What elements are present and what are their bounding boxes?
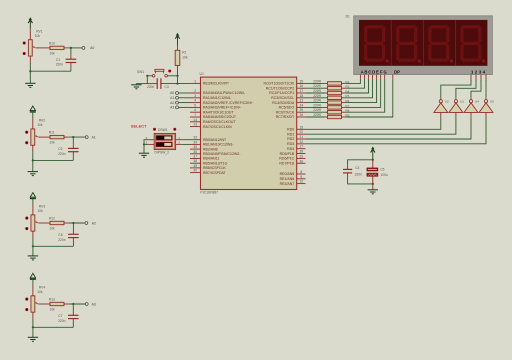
svg-text:C6: C6 xyxy=(58,233,62,237)
svg-text:RD6/P1C: RD6/P1C xyxy=(279,157,294,161)
svg-text:30: 30 xyxy=(300,159,304,163)
svg-text:RE0/AN5: RE0/AN5 xyxy=(280,172,295,176)
pin 30 RD7/P1D (right) xyxy=(297,162,306,164)
svg-text:RD1: RD1 xyxy=(287,132,294,136)
ground (pot 1) xyxy=(25,82,35,84)
svg-text:220R: 220R xyxy=(313,79,321,83)
ground (pot 3) xyxy=(28,255,38,257)
svg-text:RC1/T1OSI/CCP2: RC1/T1OSI/CCP2 xyxy=(266,86,294,90)
svg-text:220n: 220n xyxy=(56,63,64,67)
wire power to RV4 top xyxy=(32,279,34,285)
svg-text:19: 19 xyxy=(300,125,304,129)
svg-text:26: 26 xyxy=(300,113,304,117)
resistor R12 10k xyxy=(50,221,64,224)
pin 34 RB1/AN10/C12IN3- (left) xyxy=(190,143,201,145)
wire pot 3 bottom lead xyxy=(32,238,34,246)
wire R2 to display segment pin xyxy=(346,79,361,84)
svg-text:A1: A1 xyxy=(170,96,174,100)
svg-text:10k: 10k xyxy=(182,55,188,59)
potentiometer RV4 10k xyxy=(31,296,35,312)
power symbol VCC (pot 4) xyxy=(30,273,35,278)
node junction pot 4 bottom xyxy=(32,326,34,328)
wire power to RV3 top xyxy=(32,199,34,205)
terminal A3 (output flag) xyxy=(85,303,88,306)
pin 26 RC7/RX/DT (right) xyxy=(297,116,306,118)
svg-text:RA2/AN2/VREF-/CVREF/C2IN+: RA2/AN2/VREF-/CVREF/C2IN+ xyxy=(203,101,253,105)
svg-text:RB5/AN13/T1G: RB5/AN13/T1G xyxy=(203,161,228,165)
display digit 1 segments xyxy=(366,25,383,28)
node junction at C2 top xyxy=(72,136,74,138)
svg-text:25: 25 xyxy=(300,108,304,112)
terminal A0 (output flag) xyxy=(82,46,85,49)
wire RC0 to R2 xyxy=(306,82,326,84)
terminal A2 (input flag at MCU) xyxy=(176,101,179,104)
svg-text:RC3/SCK/SCL: RC3/SCK/SCL xyxy=(271,96,294,100)
svg-text:U5: U5 xyxy=(490,100,494,104)
wire A1 to MCU xyxy=(179,97,190,99)
svg-text:8: 8 xyxy=(300,170,302,174)
svg-text:RA1/AN1/C12IN1-: RA1/AN1/C12IN1- xyxy=(203,96,232,100)
svg-text:40: 40 xyxy=(193,169,197,173)
svg-text:9: 9 xyxy=(300,175,302,179)
wire wiper to R10 xyxy=(36,47,50,49)
svg-text:DIPSW_2: DIPSW_2 xyxy=(155,151,170,155)
wire DSW1 left pins to ground xyxy=(144,140,148,154)
svg-text:RB7/ICSPDAT: RB7/ICSPDAT xyxy=(203,171,227,175)
pin 38 RB5/AN13/T1G (left) xyxy=(190,162,201,164)
display D1 outer frame xyxy=(354,16,493,75)
node junction SW1 left xyxy=(146,75,148,77)
svg-text:20: 20 xyxy=(300,130,304,134)
pin 35 RB2/AN8 (left) xyxy=(190,148,201,150)
wire R5 to display segment pin xyxy=(346,79,373,98)
svg-text:15: 15 xyxy=(300,79,304,83)
svg-text:220R: 220R xyxy=(313,94,321,98)
resistor R7 220R xyxy=(325,106,327,108)
pin 40 RB7/ICSPDAT (left) xyxy=(190,172,201,174)
resistor R5 220R xyxy=(325,97,327,99)
capacitor C1 220n xyxy=(66,58,77,60)
pin 18 RC3/SCK/SCL (right) xyxy=(297,97,306,99)
red state dots of RV1 xyxy=(23,41,26,44)
wire display digit 3 to inverter U4 output xyxy=(471,80,481,98)
svg-text:A3: A3 xyxy=(170,106,174,110)
pin 3 stub (DSW1) xyxy=(148,143,154,145)
wire RC2 to R4 xyxy=(306,92,326,94)
power symbol VCC (pot 2) xyxy=(30,106,35,111)
svg-text:RA7/OSC1/CLKIN: RA7/OSC1/CLKIN xyxy=(203,125,232,129)
pin 8 RE0/AN5 (right) xyxy=(297,173,306,175)
wire power to R1 xyxy=(177,36,179,46)
display segment pin F stub xyxy=(380,75,382,79)
svg-text:A0: A0 xyxy=(90,46,94,50)
power symbol VCC (pot 1) xyxy=(29,17,32,20)
pin 15 RC0/T1OSO/T1CKI (right) xyxy=(297,82,306,84)
svg-text:27: 27 xyxy=(300,145,304,149)
svg-text:C2: C2 xyxy=(58,147,62,151)
resistor R11 10k xyxy=(50,135,64,138)
svg-text:RC4/SDI/SDA: RC4/SDI/SDA xyxy=(272,101,295,105)
svg-text:RD4: RD4 xyxy=(287,147,294,151)
pin 14 RA6/OSC2/CLKOUT (left) xyxy=(190,121,201,123)
wire R6 to display segment pin xyxy=(346,79,377,103)
wire C2 bottom to pot bottom xyxy=(72,152,74,157)
svg-text:C5: C5 xyxy=(380,168,384,172)
svg-text:14: 14 xyxy=(193,118,197,122)
wire wiper to R11 xyxy=(38,136,50,138)
svg-text:G: G xyxy=(383,70,386,75)
terminal A0 (input flag at MCU) xyxy=(176,92,179,95)
wire to ground (pot 3) xyxy=(32,246,34,256)
wire junction down to C7 xyxy=(72,304,74,311)
svg-text:C3: C3 xyxy=(165,85,169,89)
node junction at C1 top xyxy=(70,47,72,49)
pin 13 RA7/OSC1/CLKIN (left) xyxy=(190,126,201,128)
power symbol VCC (R1) xyxy=(176,33,179,36)
pin 2 RA0/AN0/ULPWU/C12IN0- (left) xyxy=(190,92,201,94)
wire A2 to MCU xyxy=(179,102,190,104)
red state dots of RV2 xyxy=(25,131,28,134)
svg-text:D1: D1 xyxy=(346,14,350,18)
display digit pin 4 stub xyxy=(485,75,487,82)
svg-text:U1: U1 xyxy=(200,72,205,76)
display segment pin B stub xyxy=(363,75,365,79)
svg-text:3: 3 xyxy=(194,94,196,98)
resistor R9 220R xyxy=(325,116,327,118)
svg-text:21: 21 xyxy=(300,135,304,139)
resistor R3 220R xyxy=(325,87,327,89)
pin 21 RD2 (right) xyxy=(297,138,306,140)
svg-text:35: 35 xyxy=(193,145,197,149)
svg-text:SW1: SW1 xyxy=(137,70,144,74)
svg-text:R10: R10 xyxy=(49,42,55,46)
wire R9 to display segment pin xyxy=(346,79,393,117)
red state dots of RV4 xyxy=(25,298,28,301)
inverter U5 xyxy=(485,98,487,100)
wire SW1 left to node xyxy=(147,75,152,77)
display digit pin 2 stub xyxy=(475,75,477,82)
power symbol VCC (C4/C5) xyxy=(371,146,374,149)
svg-text:17: 17 xyxy=(300,89,304,93)
wire to C4 xyxy=(348,160,373,166)
pin 37 RB4/AN11 (left) xyxy=(190,158,201,160)
pin 7 RA5/AN4/SS/C2OUT (left) xyxy=(190,116,201,118)
wire A0 to MCU xyxy=(179,92,190,94)
svg-text:RC7/RX/DT: RC7/RX/DT xyxy=(276,115,295,119)
svg-text:10k: 10k xyxy=(49,227,55,231)
red actuate dots DSW1 xyxy=(153,128,156,131)
wire R8 to display segment pin xyxy=(346,79,385,113)
display segment pin A stub xyxy=(359,75,361,79)
svg-text:U3: U3 xyxy=(460,100,464,104)
capacitor C2 220n xyxy=(68,147,79,149)
svg-text:37: 37 xyxy=(193,155,197,159)
svg-text:DSW1: DSW1 xyxy=(158,128,168,132)
svg-text:RD2: RD2 xyxy=(287,137,294,141)
ground (pot 2) xyxy=(28,171,38,173)
svg-text:23: 23 xyxy=(300,99,304,103)
display segment pin G stub xyxy=(384,75,386,79)
svg-text:10k: 10k xyxy=(37,290,43,294)
pin 4 RA2/AN2/VREF-/CVREF/C2IN+ (left) xyxy=(190,102,201,104)
capacitor C6 220n xyxy=(68,233,79,235)
wire R1 bottom xyxy=(177,66,179,84)
svg-text:RC5/SDO: RC5/SDO xyxy=(279,106,295,110)
svg-text:4: 4 xyxy=(194,99,196,103)
svg-text:RV4: RV4 xyxy=(39,286,46,290)
wire R11 to terminal A1 xyxy=(69,136,85,138)
display D1 inner area xyxy=(359,20,487,66)
svg-text:RC6/TX/CK: RC6/TX/CK xyxy=(276,110,295,114)
svg-text:A0: A0 xyxy=(170,91,174,95)
display digit pin 3 stub xyxy=(480,75,482,82)
svg-text:RB2/AN8: RB2/AN8 xyxy=(203,147,218,151)
wire wiper to R13 xyxy=(38,303,50,305)
svg-text:RD7/P1D: RD7/P1D xyxy=(279,161,294,165)
wire to ground (pot 2) xyxy=(32,160,34,171)
wire SW1 right to R1 bottom xyxy=(167,75,177,77)
dip switch slot 2 xyxy=(156,142,172,147)
resistor R1 10k (vertical) xyxy=(175,50,180,65)
ground (SW1/C3) xyxy=(135,84,137,85)
display digit 2 segments xyxy=(398,25,415,28)
svg-text:24: 24 xyxy=(300,103,304,107)
svg-text:RE3/MCLR/VPP: RE3/MCLR/VPP xyxy=(203,82,229,86)
svg-text:36: 36 xyxy=(193,150,197,154)
wire C6 bottom to pot bottom xyxy=(72,238,74,243)
svg-text:RV1: RV1 xyxy=(36,29,43,33)
wire display digit 2 to inverter U3 output xyxy=(456,80,476,98)
capacitor C7 220n xyxy=(68,314,79,316)
wire pot 4 bottom lead xyxy=(32,319,34,327)
svg-text:13: 13 xyxy=(193,123,197,127)
svg-text:220n: 220n xyxy=(147,85,155,89)
svg-text:RA5/AN4/SS/C2OUT: RA5/AN4/SS/C2OUT xyxy=(203,115,237,119)
wire RC5 to R7 xyxy=(306,106,326,108)
svg-text:10k: 10k xyxy=(49,141,55,145)
dip switch DSW1 body xyxy=(154,133,175,149)
dip switch slot 1 xyxy=(156,136,172,141)
wire RC4 to R6 xyxy=(306,102,326,104)
display digit separator 1 xyxy=(390,20,392,66)
pin 33 RB0/AN12/INT (left) xyxy=(190,139,201,141)
capacitor C4 220n xyxy=(343,168,352,170)
resistor R8 220R xyxy=(325,111,327,113)
wire node to C3 xyxy=(147,83,157,85)
svg-text:RB0/AN12/INT: RB0/AN12/INT xyxy=(203,138,227,142)
svg-text:220R: 220R xyxy=(313,99,321,103)
svg-text:100u: 100u xyxy=(380,173,388,177)
pin 20 RD1 (right) xyxy=(297,133,306,135)
pin 9 RE1/AN6 (right) xyxy=(297,178,306,180)
svg-text:R11: R11 xyxy=(49,131,55,135)
svg-text:22: 22 xyxy=(300,140,304,144)
svg-text:RA3/AN3/VREF+/C1IN+: RA3/AN3/VREF+/C1IN+ xyxy=(203,106,241,110)
inverter U4 xyxy=(470,98,472,100)
svg-text:18: 18 xyxy=(300,94,304,98)
pin 2 stub (DSW1) xyxy=(176,143,182,145)
wire junction down to C6 xyxy=(72,223,74,230)
potentiometer RV3 10k xyxy=(31,215,35,231)
svg-text:D: D xyxy=(372,70,375,75)
pin 17 RC2/P1A/CCP1 (right) xyxy=(297,92,306,94)
svg-text:SELECT: SELECT xyxy=(131,124,147,129)
svg-text:10k: 10k xyxy=(37,123,43,127)
potentiometer RV1 10k xyxy=(28,40,32,56)
wire R10 to terminal A0 xyxy=(66,47,81,49)
wire to ground (pot 1) xyxy=(29,71,31,83)
svg-text:28: 28 xyxy=(300,150,304,154)
wire junction down to C2 xyxy=(72,137,74,144)
svg-text:38: 38 xyxy=(193,159,197,163)
pin 19 RD0 (right) xyxy=(297,128,306,130)
node junction pot 1 bottom xyxy=(29,70,31,72)
svg-text:RE2/AN7: RE2/AN7 xyxy=(280,182,295,186)
wire power to RV1 top xyxy=(29,20,31,29)
wire A3 to MCU xyxy=(179,106,190,108)
pin 22 RD3 (right) xyxy=(297,143,306,145)
svg-text:R12: R12 xyxy=(49,217,55,221)
svg-text:RA6/OSC2/CLKOUT: RA6/OSC2/CLKOUT xyxy=(203,120,236,124)
wire RC6 to R8 xyxy=(306,111,326,113)
wire C7 bottom to pot bottom xyxy=(72,319,74,324)
inverter U2 xyxy=(440,98,442,100)
svg-text:10k: 10k xyxy=(37,209,43,213)
svg-text:10: 10 xyxy=(300,180,304,184)
wire power to junction xyxy=(372,150,374,160)
svg-text:5: 5 xyxy=(194,103,196,107)
svg-text:10k: 10k xyxy=(49,51,55,55)
pin 24 RC5/SDO (right) xyxy=(297,106,306,108)
svg-text:33: 33 xyxy=(193,136,197,140)
wire RC7 to R9 xyxy=(306,116,326,118)
wire node down to ground rail xyxy=(146,76,148,84)
svg-text:RC0/T1OSO/T1CKI: RC0/T1OSO/T1CKI xyxy=(263,82,294,86)
svg-text:16: 16 xyxy=(300,84,304,88)
svg-text:2: 2 xyxy=(194,89,196,93)
pin 23 RC4/SDI/SDA (right) xyxy=(297,102,306,104)
pin 6 RA4/T0CKI/C1OUT (left) xyxy=(190,111,201,113)
svg-text:U4: U4 xyxy=(475,100,479,104)
pin 25 RC6/TX/CK (right) xyxy=(297,111,306,113)
svg-text:C1: C1 xyxy=(56,58,60,62)
display digit separator 3 xyxy=(455,20,457,66)
display segment pin E stub xyxy=(376,75,378,79)
svg-text:C: C xyxy=(368,70,371,75)
resistor R10 10k xyxy=(50,46,64,49)
node junction C3/R1/pin1 xyxy=(176,83,178,85)
inverter U3 xyxy=(455,98,457,100)
ground (pot 4) xyxy=(28,336,38,338)
svg-text:220n: 220n xyxy=(58,152,66,156)
svg-text:220R: 220R xyxy=(313,103,321,107)
svg-text:220R: 220R xyxy=(313,108,321,112)
svg-text:220n: 220n xyxy=(355,173,363,177)
wire inverter U3 input to RD1 xyxy=(455,112,457,117)
svg-text:29: 29 xyxy=(300,154,304,158)
svg-text:B: B xyxy=(364,70,367,75)
pin 1 stub (DSW1) xyxy=(176,139,182,141)
svg-text:A3: A3 xyxy=(92,302,96,306)
terminal A1 (output flag) xyxy=(85,136,88,139)
pin 39 RB6/ICSPCLK (left) xyxy=(190,167,201,169)
wire junction down to C1 xyxy=(70,48,72,55)
svg-text:6: 6 xyxy=(194,108,196,112)
wire wiper to R12 xyxy=(38,222,50,224)
display digit 4 segments xyxy=(463,25,480,28)
svg-text:220n: 220n xyxy=(58,238,66,242)
svg-text:A1: A1 xyxy=(92,135,96,139)
svg-text:220R: 220R xyxy=(313,113,321,117)
terminal A1 (input flag at MCU) xyxy=(176,96,179,99)
svg-text:220R: 220R xyxy=(313,89,321,93)
svg-text:U2: U2 xyxy=(445,100,449,104)
wire C3 to MCLR net xyxy=(161,83,190,85)
node junction pot 2 bottom xyxy=(32,159,34,161)
wire C4 bottom to junction xyxy=(348,178,373,184)
node junction R1/SW1 xyxy=(176,75,178,77)
red state dots of RV3 xyxy=(25,217,28,220)
svg-text:RB1/AN10/C12IN3-: RB1/AN10/C12IN3- xyxy=(203,143,234,147)
display digit 3 segments xyxy=(430,25,447,28)
svg-text:1: 1 xyxy=(194,79,196,83)
wire RC1 to R3 xyxy=(306,87,326,89)
pin 3 RA1/AN1/C12IN1- (left) xyxy=(190,97,201,99)
wire DSW1 pin1 to RB0 xyxy=(181,139,190,141)
svg-text:RD0: RD0 xyxy=(287,128,294,132)
resistor R13 10k xyxy=(50,302,64,305)
power symbol VCC (pot 3) xyxy=(30,193,35,198)
svg-text:DP: DP xyxy=(394,70,400,75)
svg-text:A: A xyxy=(361,70,364,75)
capacitor C5 100u (electrolytic) xyxy=(372,160,374,168)
node junction DSW1 ground xyxy=(143,143,145,145)
pin 36 RB3/AN9/PGM/C12IN2- (left) xyxy=(190,153,201,155)
display digit pin 1 stub xyxy=(470,75,472,82)
svg-text:7: 7 xyxy=(194,113,196,117)
potentiometer RV2 10k xyxy=(31,129,35,145)
svg-text:10k: 10k xyxy=(49,308,55,312)
svg-text:R13: R13 xyxy=(49,298,55,302)
wire left to ground xyxy=(136,83,147,85)
ground (C4/C5) xyxy=(368,189,378,191)
display segment pin D stub xyxy=(372,75,374,79)
wire to ground (pot 4) xyxy=(32,327,34,337)
svg-text:39: 39 xyxy=(193,164,197,168)
display digit separator 2 xyxy=(422,20,424,66)
wire display digit 1 to inverter U2 output xyxy=(441,80,471,98)
wire inverter U5 input to RD3 xyxy=(485,112,487,117)
svg-text:220n: 220n xyxy=(58,319,66,323)
wire pot 2 bottom lead xyxy=(32,152,34,160)
svg-text:RD5/P1B: RD5/P1B xyxy=(280,152,295,156)
node junction pot 3 bottom xyxy=(32,245,34,247)
svg-text:220R: 220R xyxy=(313,84,321,88)
wire display digit 4 to inverter U5 output xyxy=(485,80,487,98)
wire inverter U4 input to RD2 xyxy=(470,112,472,117)
node junction at C6 top xyxy=(72,222,74,224)
svg-text:A2: A2 xyxy=(170,101,174,105)
pin 29 RD6/P1C (right) xyxy=(297,157,306,159)
terminal A3 (input flag at MCU) xyxy=(176,106,179,109)
svg-text:RD3: RD3 xyxy=(287,142,294,146)
node junction at C7 top xyxy=(72,303,74,305)
svg-text:RB3/AN9/PGM/C12IN2-: RB3/AN9/PGM/C12IN2- xyxy=(203,152,241,156)
svg-text:RB6/ICSPCLK: RB6/ICSPCLK xyxy=(203,166,226,170)
terminal A2 (output flag) xyxy=(85,222,88,225)
pin 5 RA3/AN3/VREF+/C1IN+ (left) xyxy=(190,106,201,108)
wire C5 bottom to ground xyxy=(372,176,374,190)
